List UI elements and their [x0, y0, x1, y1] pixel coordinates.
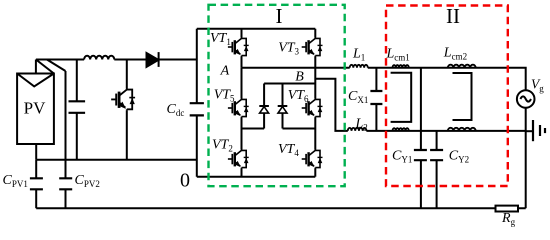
transistor VT1	[210, 29, 249, 68]
transistor VT5	[214, 68, 249, 129]
ground bus	[36, 207, 496, 209]
svg-text:PV: PV	[24, 99, 46, 118]
capacitor CX1	[348, 68, 382, 131]
capacitor CPV2	[59, 71, 100, 208]
wire mid1 (VT5/VT2 junction to D1 anode)	[242, 128, 265, 130]
PV panel	[17, 74, 54, 145]
wire input cap branch	[76, 60, 78, 160]
capacitor CPV1	[3, 160, 43, 209]
wire mid2 (D2 anode to VT6/VT4 junction)	[283, 128, 316, 130]
source Vg (grid)	[517, 77, 544, 108]
wire PV+ terminal to top rail	[35, 60, 37, 74]
wire B cathode bus	[264, 83, 315, 85]
common-mode choke Lcm1 top coil	[386, 46, 410, 68]
svg-text:0: 0	[180, 169, 190, 191]
wire PV- terminal	[35, 144, 37, 160]
transistor VT2	[212, 129, 249, 177]
resistor Rg	[496, 206, 519, 227]
wire diagonal to CPV2 branch	[47, 60, 66, 72]
wire B exit to L2	[315, 79, 348, 131]
transistor VT6	[288, 84, 323, 150]
Lcm1 core bracket	[391, 73, 412, 122]
svg-text:I: I	[276, 4, 283, 28]
capacitor Cin	[69, 101, 86, 113]
dashed box I (green)	[209, 4, 345, 186]
wire DC+ rail	[197, 28, 315, 30]
diode D boost	[147, 52, 159, 67]
capacitor CY2	[430, 131, 469, 208]
inductor L1	[350, 46, 368, 68]
wire DC- rail	[197, 176, 315, 178]
capacitor Cdc	[167, 29, 204, 177]
common-mode choke Lcm2 top coil	[443, 46, 476, 68]
dashed box II (red)	[386, 4, 508, 186]
wire PV- bus	[36, 159, 197, 161]
wire Vg bottom lead down to ground bus	[518, 108, 526, 209]
wire rail inductor to diode	[114, 59, 146, 61]
Lcm2 core bracket	[453, 73, 472, 120]
wire decorative diagonal to PV corner	[36, 60, 54, 74]
wire B line L2 to Vg bottom	[366, 130, 525, 132]
svg-text:B: B	[295, 70, 304, 85]
wire A output line	[242, 67, 350, 69]
svg-text:A: A	[220, 64, 230, 79]
diode D2 (freewheeling)	[278, 84, 288, 129]
common-mode choke Lcm1 bottom coil	[393, 128, 409, 131]
transistor VT4	[278, 142, 322, 177]
capacitor CY1	[392, 68, 427, 209]
svg-text:II: II	[446, 4, 460, 28]
common-mode choke Lcm2 bottom coil	[448, 128, 476, 131]
ground symbol (sideways)	[526, 120, 545, 141]
diode D1 (freewheeling)	[259, 84, 269, 129]
wire A line L1 to Vg corner	[368, 68, 526, 90]
wire diode to bridge rail	[159, 59, 197, 61]
inductor boost L	[84, 56, 114, 60]
inductor L2	[348, 117, 368, 133]
transistor VT3	[278, 29, 322, 84]
transistor Q boost (IGBT)	[111, 60, 135, 160]
wire top rail left	[36, 59, 84, 61]
